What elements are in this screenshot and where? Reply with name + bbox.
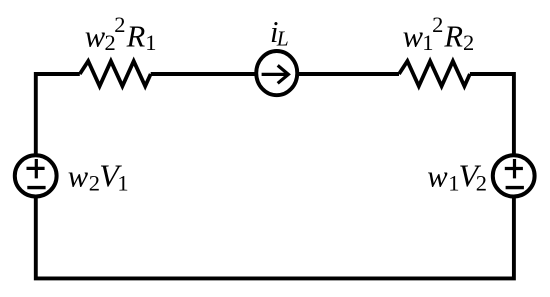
- svg-text:1: 1: [145, 30, 156, 55]
- label w1 V2: [427, 158, 487, 196]
- wire: R2 to top-right corner, right vertical upper segment: [470, 74, 514, 155]
- V2 minus sign: [506, 186, 524, 189]
- svg-text:2: 2: [463, 30, 474, 55]
- svg-text:w: w: [427, 160, 448, 194]
- iL arrow shaft: [262, 73, 289, 76]
- svg-text:w: w: [68, 160, 89, 194]
- svg-text:w: w: [403, 20, 424, 54]
- svg-text:L: L: [276, 26, 289, 50]
- svg-text:R: R: [443, 20, 463, 54]
- wire: right vertical lower, bottom wire, left vertical lower: [36, 197, 514, 278]
- svg-text:1: 1: [117, 170, 128, 195]
- svg-text:R: R: [126, 20, 146, 54]
- resistor R2: [399, 61, 470, 86]
- label iL: [270, 15, 289, 51]
- V2 plus sign: [505, 159, 523, 178]
- wire: top-left corner, left vertical upper segment: [36, 74, 80, 155]
- V1 plus sign: [27, 159, 45, 178]
- svg-text:w: w: [85, 20, 106, 54]
- wire: R1 to current source: [151, 72, 256, 76]
- svg-text:2: 2: [432, 12, 443, 37]
- iL arrow head: [278, 65, 289, 83]
- svg-text:2: 2: [114, 12, 125, 37]
- label w2 V1: [68, 158, 129, 196]
- resistor R1: [80, 61, 151, 86]
- svg-text:2: 2: [476, 170, 487, 195]
- current source iL circle: [256, 51, 297, 95]
- label w2^2 R1: [85, 12, 157, 55]
- V1 minus sign: [27, 186, 45, 189]
- voltage source V2 circle: [493, 155, 535, 196]
- voltage source V1 circle: [15, 155, 57, 196]
- label w1^2 R2: [403, 12, 475, 55]
- wire: current source to R2: [298, 72, 400, 76]
